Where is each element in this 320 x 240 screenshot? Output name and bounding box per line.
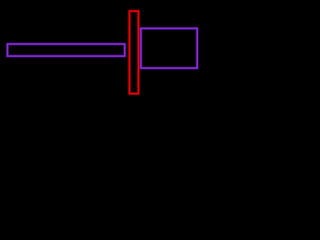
tall vertical red rectangle core xyxy=(129,11,138,94)
long horizontal purple rectangle (left bar) core xyxy=(7,44,124,56)
long horizontal purple rectangle (left bar) glow xyxy=(7,44,124,56)
tall vertical red rectangle glow xyxy=(129,11,138,94)
purple square (right box) core xyxy=(141,28,197,68)
purple square (right box) glow xyxy=(141,28,197,68)
